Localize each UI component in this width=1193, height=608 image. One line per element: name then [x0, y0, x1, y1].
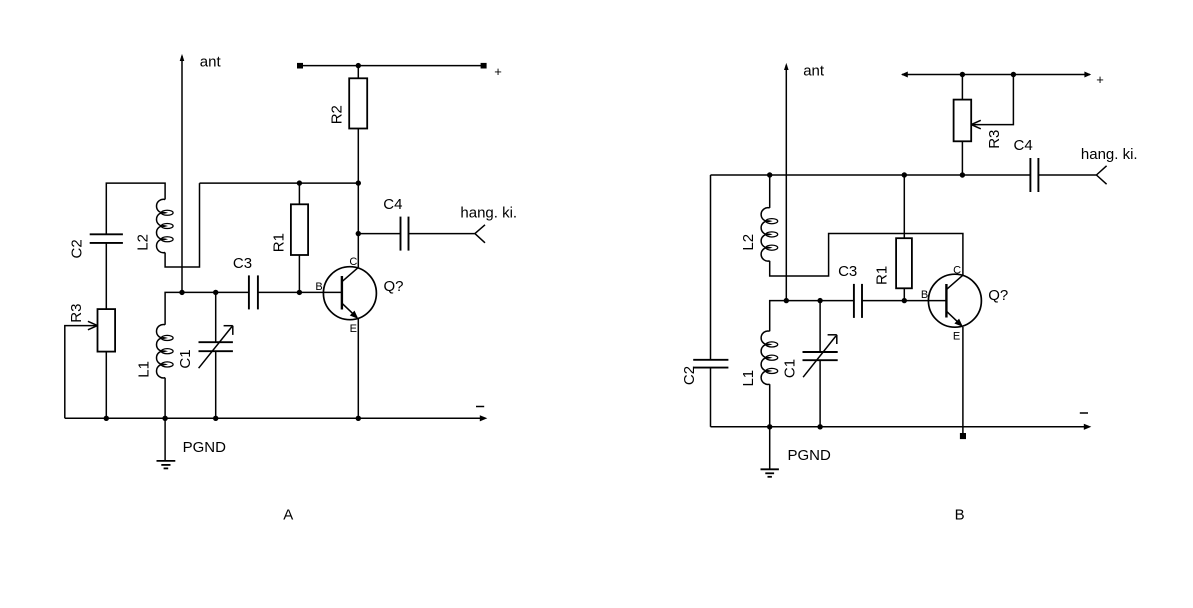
svg-text:R3: R3	[986, 130, 1003, 149]
junction rail/R3 (B)	[960, 72, 965, 77]
svg-text:C4: C4	[383, 196, 402, 213]
output wire horizontal (B)	[711, 174, 1031, 176]
wire C2 branch (B)	[710, 175, 712, 360]
svg-text:C4: C4	[1014, 137, 1033, 154]
R3 wiper wire (B)	[971, 75, 1013, 129]
junction emitter/ground rail (A)	[356, 416, 361, 421]
ground symbol PGND (A)	[157, 418, 176, 468]
capacitor C2 (B)	[693, 360, 728, 427]
transistor Q? (A)	[323, 267, 376, 320]
label C1 (B)	[782, 359, 799, 378]
svg-text:B: B	[315, 281, 322, 293]
label + (A)	[494, 64, 502, 79]
svg-text:C: C	[953, 265, 961, 277]
junction antenna/base (B)	[784, 298, 789, 303]
junction R3/ground rail (A)	[104, 416, 109, 421]
potentiometer R3 (B)	[954, 100, 972, 142]
label L2 (A)	[135, 234, 152, 251]
label - (B)	[1080, 412, 1088, 414]
wire rail to R3 (B)	[961, 75, 963, 100]
capacitor C3 (A)	[249, 275, 258, 309]
label C3 (B)	[838, 263, 857, 280]
label C pin (B)	[953, 265, 961, 277]
label R1 (A)	[270, 233, 287, 252]
svg-text:L1: L1	[740, 370, 757, 387]
junction C1/base (A)	[213, 290, 218, 295]
label B pin (B)	[921, 289, 928, 301]
svg-text:+: +	[494, 64, 502, 79]
wire emitter (B)	[962, 327, 964, 433]
wire bias node horizontal (A)	[200, 182, 359, 184]
base wire left (A)	[165, 292, 249, 324]
svg-text:ant: ant	[803, 63, 825, 80]
label Q? (B)	[988, 287, 1008, 304]
label L1 (A)	[135, 361, 152, 378]
positive supply rail A	[297, 63, 487, 69]
wire R3 bottom (B)	[961, 141, 963, 175]
junction R1 bottom (B)	[902, 298, 907, 303]
inductor L2 (A)	[157, 199, 174, 252]
output connector hang.ki. (A)	[475, 225, 485, 243]
junction rail/wiper (B)	[1011, 72, 1016, 77]
label C3 (A)	[233, 255, 252, 272]
base wire right (A)	[258, 291, 342, 293]
junction R1/base wire (A)	[297, 290, 302, 295]
junction L1/ground rail (A)	[162, 416, 167, 421]
label C2 (B)	[681, 366, 698, 385]
label + (B)	[1096, 72, 1104, 87]
wire C2 to L2 top (A)	[106, 183, 165, 234]
positive supply rail B	[901, 72, 1091, 78]
svg-text:Q?: Q?	[988, 287, 1008, 304]
inductor L1 (A)	[157, 324, 174, 377]
resistor R2	[349, 78, 367, 128]
svg-text:C: C	[349, 256, 357, 268]
svg-text:C3: C3	[233, 255, 252, 272]
label E pin (A)	[350, 323, 357, 335]
svg-text:ant: ant	[200, 53, 222, 70]
caption A	[283, 507, 293, 524]
capacitor C3 (B)	[854, 284, 862, 318]
resistor R1 (A)	[291, 204, 308, 255]
label PGND (A)	[183, 439, 227, 456]
junction collector/C4 (A)	[356, 231, 361, 236]
label hang. ki. (A)	[460, 205, 517, 222]
label C4 (A)	[383, 196, 402, 213]
label PGND (B)	[788, 447, 832, 464]
variable capacitor C1 (B)	[803, 301, 838, 427]
svg-text:hang. ki.: hang. ki.	[1081, 146, 1138, 163]
label hang. ki. (B)	[1081, 146, 1138, 163]
wire R3 bottom (A)	[105, 352, 107, 419]
svg-text:R1: R1	[270, 233, 287, 252]
inductor L1 (B)	[761, 331, 778, 384]
junction antenna/base (A)	[179, 290, 184, 295]
junction C1/base (B)	[817, 298, 822, 303]
base wire right (B)	[862, 300, 946, 302]
svg-text:hang. ki.: hang. ki.	[460, 205, 517, 222]
junction R1 top (B)	[902, 172, 907, 177]
wire rail to R2	[357, 66, 359, 79]
svg-text:L2: L2	[740, 234, 757, 251]
junction L1/ground rail (B)	[767, 424, 772, 429]
label C pin (A)	[349, 256, 357, 268]
label R3 (A)	[68, 304, 85, 323]
label Q? (A)	[384, 278, 404, 295]
svg-text:PGND: PGND	[788, 447, 832, 464]
junction C1/ground rail (A)	[213, 416, 218, 421]
svg-text:R2: R2	[329, 105, 346, 124]
svg-text:C2: C2	[68, 239, 85, 258]
svg-text:C3: C3	[838, 263, 857, 280]
svg-text:C2: C2	[681, 366, 698, 385]
caption B	[955, 507, 965, 524]
junction R3/output wire (B)	[960, 172, 965, 177]
label ant (B)	[803, 63, 825, 80]
svg-text:L1: L1	[135, 361, 152, 378]
wire L1 bottom (B)	[769, 384, 771, 427]
antenna A	[180, 54, 185, 293]
junction bias/R2 wire (A)	[356, 180, 361, 185]
label R1 (B)	[873, 266, 890, 285]
svg-text:PGND: PGND	[183, 439, 227, 456]
wire R1 top (A)	[298, 183, 300, 204]
ground rail A	[65, 415, 488, 421]
capacitor C4 (B)	[1030, 158, 1096, 192]
junction C1/ground rail (B)	[817, 424, 822, 429]
variable capacitor C1 (A)	[199, 292, 233, 418]
label - (A)	[476, 406, 484, 408]
junction L2 top (B)	[767, 172, 772, 177]
antenna B	[784, 63, 789, 301]
wire R1 top (B)	[903, 175, 905, 238]
label E pin (B)	[953, 331, 960, 343]
potentiometer R3 (A)	[98, 309, 116, 352]
wire R2 to collector node	[357, 129, 359, 234]
svg-text:E: E	[350, 323, 357, 335]
transistor Q? (B)	[928, 274, 981, 327]
label B pin (A)	[315, 281, 322, 293]
base wire left (B)	[770, 301, 854, 332]
emitter tap square (B)	[960, 433, 966, 439]
capacitor C4 (A)	[358, 217, 475, 251]
svg-text:E: E	[953, 331, 960, 343]
svg-text:R1: R1	[873, 266, 890, 285]
svg-text:C1: C1	[177, 349, 194, 368]
ground rail B	[711, 424, 1092, 430]
label C2 (A)	[68, 239, 85, 258]
capacitor C2 (A)	[90, 234, 123, 309]
wire L2 bottom to collector (B)	[770, 234, 963, 277]
svg-text:C1: C1	[782, 359, 799, 378]
resistor R1 (B)	[896, 238, 912, 288]
R3 wiper wire (A)	[65, 321, 98, 418]
label C1 (A)	[177, 349, 194, 368]
junction bias/R1 top (A)	[297, 180, 302, 185]
junction rail/R2 (A)	[356, 63, 361, 68]
wire R1 bottom (B)	[903, 288, 905, 300]
label C4 (B)	[1014, 137, 1033, 154]
wire L1 bottom (A)	[164, 378, 166, 419]
ground symbol PGND (B)	[761, 427, 779, 477]
output connector hang.ki. (B)	[1096, 166, 1106, 184]
inductor L2 (B)	[761, 175, 778, 261]
svg-text:+: +	[1096, 72, 1104, 87]
wire L2 bottom to bias node (A)	[165, 183, 199, 267]
label R3 (B)	[986, 130, 1003, 149]
label L1 (B)	[740, 370, 757, 387]
svg-text:Q?: Q?	[384, 278, 404, 295]
label L2 (B)	[740, 234, 757, 251]
svg-text:B: B	[955, 507, 965, 524]
svg-text:L2: L2	[135, 234, 152, 251]
wire collector (A)	[357, 234, 359, 268]
svg-text:B: B	[921, 289, 928, 301]
svg-text:A: A	[283, 507, 293, 524]
label R2	[329, 105, 346, 124]
label ant (A)	[200, 53, 222, 70]
svg-text:R3: R3	[68, 304, 85, 323]
wire emitter (A)	[357, 319, 359, 418]
wire R1 bottom (A)	[298, 255, 300, 292]
